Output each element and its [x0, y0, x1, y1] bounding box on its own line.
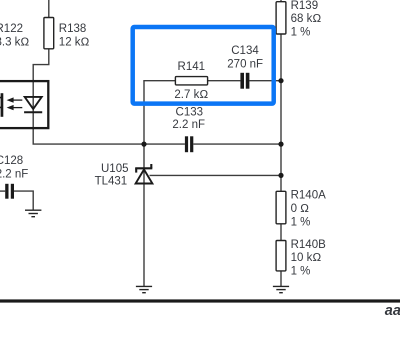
resistor R140B [276, 239, 326, 278]
junction node TL431 ref [278, 173, 283, 178]
svg-text:C133: C133 [176, 107, 204, 119]
svg-text:R122: R122 [0, 23, 23, 35]
phototransistor stubs [0, 98, 1, 108]
capacitor C134 [227, 45, 263, 89]
svg-text:TL431: TL431 [95, 175, 128, 187]
optocoupler LED triangle [25, 97, 42, 109]
wire R139 to R140A [280, 34, 282, 191]
wire TL431 reference line [150, 174, 282, 176]
svg-text:1 %: 1 % [291, 265, 311, 277]
wire R138 to optocoupler LED (through box and LED) [33, 49, 49, 144]
wire R141 to C134 [208, 80, 241, 82]
wire R140A to R140B [280, 224, 282, 241]
ground (C128) [25, 210, 41, 217]
svg-text:10 kΩ: 10 kΩ [291, 252, 322, 264]
resistor R141 [174, 61, 208, 101]
blue highlight box [133, 27, 274, 104]
svg-text:C128: C128 [0, 155, 23, 167]
op-amp U105 TL431 shunt regulator [95, 163, 153, 187]
resistor R139 [276, 0, 321, 38]
TL431 cathode bar right tick [150, 164, 152, 168]
svg-text:0 Ω: 0 Ω [291, 203, 310, 215]
wire left vertical R141/TL431 branch [143, 81, 145, 287]
svg-text:R141: R141 [178, 61, 206, 73]
svg-text:C134: C134 [231, 45, 259, 57]
ground (R140B) [273, 286, 289, 292]
TL431 cathode bar left tick [135, 168, 137, 172]
svg-text:270 nF: 270 nF [227, 58, 263, 70]
svg-text:68 kΩ: 68 kΩ [291, 13, 322, 25]
wire R141 row left [143, 80, 175, 82]
wire C128 right to ground [14, 191, 33, 210]
svg-text:1 %: 1 % [291, 26, 311, 38]
optocoupler light arrow lower [7, 105, 23, 110]
optocoupler U-box [0, 81, 48, 128]
svg-text:aa: aa [385, 303, 400, 319]
wire C134 to right vertical [249, 80, 281, 82]
junction dot at left cross [141, 142, 146, 147]
wire C133 row right segment [193, 143, 281, 145]
resistor R138 [44, 18, 90, 49]
svg-text:12 kΩ: 12 kΩ [59, 36, 90, 48]
bottom frame border [0, 299, 400, 302]
resistor R122 label (component off-screen left) [0, 23, 29, 48]
svg-text:2.2 nF: 2.2 nF [172, 119, 205, 131]
capacitor C128 [0, 155, 28, 199]
optocoupler LED cathode bar [24, 111, 42, 113]
TL431 cathode bar [135, 167, 152, 169]
resistor R140A [276, 190, 326, 229]
optocoupler phototransistor bar (cut off) [1, 93, 4, 117]
junction node C134 row [278, 78, 283, 83]
svg-text:R139: R139 [291, 0, 319, 12]
capacitor C133 [172, 107, 205, 153]
wire C133 row left segment [33, 143, 185, 145]
svg-text:1 %: 1 % [291, 216, 311, 228]
svg-text:2.2 nF: 2.2 nF [0, 168, 28, 180]
svg-text:3.3 kΩ: 3.3 kΩ [0, 36, 29, 48]
junction node C133 row [278, 142, 283, 147]
svg-text:R140B: R140B [291, 239, 326, 251]
svg-text:U105: U105 [101, 163, 129, 175]
svg-text:R138: R138 [59, 23, 87, 35]
optocoupler light arrow upper [7, 97, 23, 102]
ground (TL431) [136, 286, 152, 292]
wire R140B to ground [280, 271, 282, 286]
wire from top to R138 [48, 0, 50, 18]
svg-text:2.7 kΩ: 2.7 kΩ [174, 89, 208, 101]
wire top stub above R139 [280, 0, 282, 2]
svg-text:R140A: R140A [291, 190, 326, 202]
wire C128 to ground [0, 190, 5, 192]
TL431 triangle [136, 170, 153, 184]
